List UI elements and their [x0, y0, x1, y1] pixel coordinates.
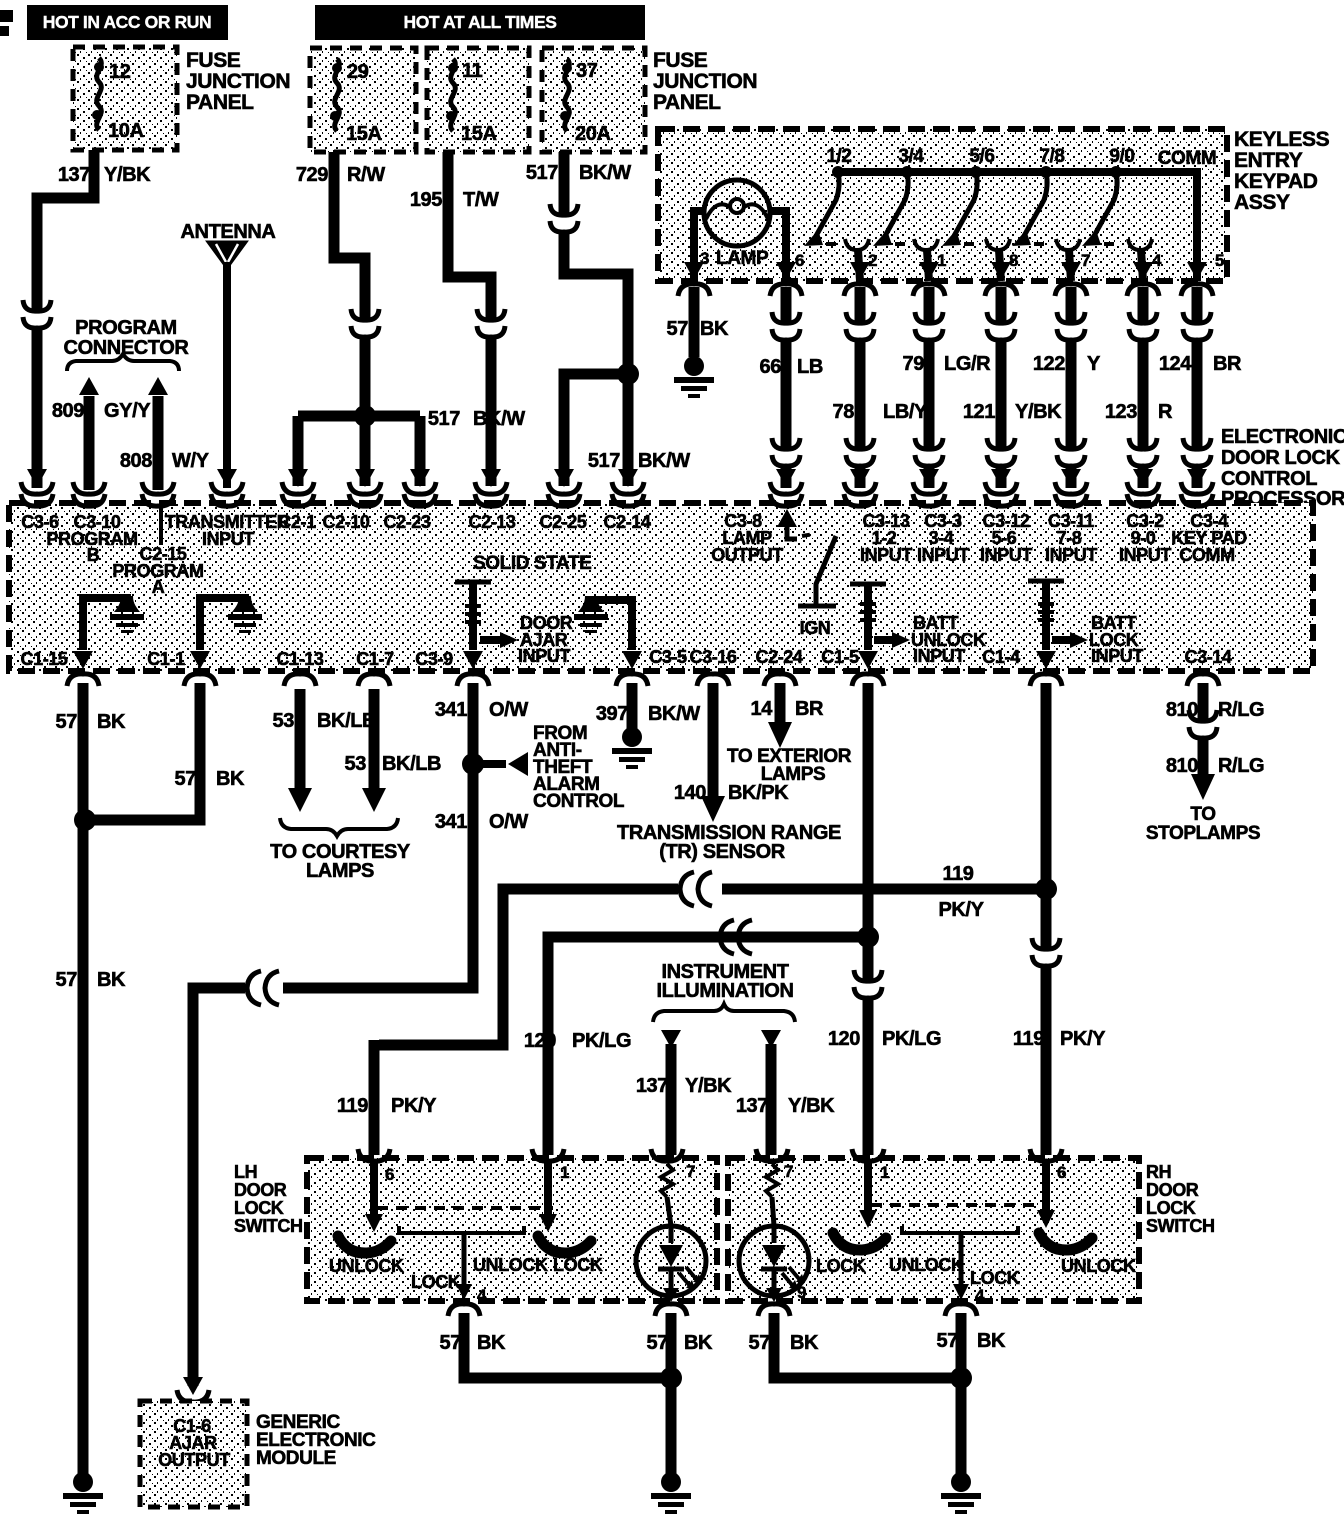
- svg-text:LAMPS: LAMPS: [306, 860, 374, 882]
- keyless entry keypad assy box: [658, 129, 1227, 281]
- svg-text:53: 53: [345, 753, 367, 775]
- svg-text:808: 808: [120, 450, 152, 472]
- junction node wire 729: [282, 405, 436, 494]
- svg-text:C3-9: C3-9: [415, 649, 453, 669]
- svg-text:PK/Y: PK/Y: [938, 899, 984, 921]
- keypad switch common bus wire: [838, 148, 1216, 281]
- LH switch exit cups: [448, 1304, 687, 1316]
- wire 78 LB/Y keypad pin2 to C3-13: [833, 287, 928, 494]
- svg-text:B: B: [87, 545, 100, 565]
- svg-text:PANEL: PANEL: [653, 91, 721, 114]
- svg-text:517: 517: [428, 408, 460, 430]
- LH mechanical link dashed: [377, 1206, 553, 1210]
- ground RH switches: [941, 1472, 981, 1514]
- fuse 29 15A box: [310, 48, 416, 152]
- label to exterior lamps: [727, 746, 852, 785]
- svg-text:LAMP: LAMP: [716, 248, 769, 269]
- program connector: [64, 317, 190, 371]
- svg-text:O/W: O/W: [489, 699, 528, 721]
- svg-text:15A: 15A: [461, 123, 497, 145]
- wire 53 BK/LB from C1-13 to courtesy lamps: [273, 689, 377, 812]
- svg-text:SWITCH: SWITCH: [234, 1216, 303, 1236]
- svg-text:809: 809: [52, 400, 84, 422]
- wire 140 BK/PK from C3-16 to TR sensor: [674, 683, 789, 822]
- internal ground circuit C1-15: [73, 596, 144, 669]
- svg-text:UNLOCK: UNLOCK: [473, 1255, 548, 1275]
- svg-text:4: 4: [975, 1286, 985, 1305]
- svg-text:R/LG: R/LG: [1218, 699, 1264, 721]
- RH switch common contact pin 4: [889, 1226, 1020, 1305]
- internal IGN switch for lamp output: [777, 509, 836, 638]
- label to courtesy lamps with brace: [270, 818, 411, 882]
- label to stoplamps: [1146, 804, 1260, 844]
- svg-text:9/0: 9/0: [1109, 146, 1134, 167]
- svg-text:UNLOCK: UNLOCK: [329, 1256, 404, 1276]
- svg-text:W/Y: W/Y: [172, 450, 210, 472]
- svg-text:BK: BK: [790, 1332, 819, 1354]
- svg-text:810: 810: [1166, 699, 1198, 721]
- svg-text:BK: BK: [700, 318, 729, 340]
- svg-text:LG/R: LG/R: [944, 353, 991, 375]
- svg-text:119: 119: [337, 1095, 368, 1117]
- svg-text:341: 341: [435, 811, 467, 833]
- svg-text:29: 29: [347, 61, 369, 83]
- label LH door lock switch: [234, 1162, 303, 1236]
- svg-text:STOPLAMPS: STOPLAMPS: [1146, 823, 1260, 844]
- wire 57 BK from C1-15 to ground: [56, 683, 126, 1474]
- svg-text:57: 57: [937, 1330, 959, 1352]
- LH indicator LED pin 7: [636, 1164, 706, 1302]
- LH unlock switch pin 6: [329, 1162, 404, 1276]
- ground keypad: [674, 356, 714, 398]
- svg-text:INPUT: INPUT: [980, 545, 1032, 565]
- svg-text:PK/Y: PK/Y: [391, 1095, 437, 1117]
- svg-text:INPUT: INPUT: [1045, 545, 1097, 565]
- RH lock switch pin 1: [816, 1162, 886, 1276]
- svg-text:(TR) SENSOR: (TR) SENSOR: [659, 841, 786, 863]
- svg-text:57: 57: [647, 1332, 669, 1354]
- wire 119 PK/Y to LH switch pin 6: [337, 1040, 437, 1155]
- svg-text:LOCK: LOCK: [553, 1255, 603, 1275]
- svg-text:INPUT: INPUT: [913, 646, 965, 666]
- svg-text:T/W: T/W: [463, 189, 499, 211]
- svg-text:PROGRAM: PROGRAM: [75, 317, 177, 339]
- fuse 12 10A box: [73, 47, 177, 150]
- label from anti-theft alarm control: [533, 723, 625, 812]
- svg-text:LOCK: LOCK: [970, 1268, 1020, 1288]
- svg-text:KEYLESS: KEYLESS: [1234, 128, 1330, 151]
- svg-text:INPUT: INPUT: [917, 545, 969, 565]
- LH lock switch pin 1: [473, 1162, 603, 1275]
- keypad switch 7/8: [1012, 146, 1090, 281]
- keypad switch 1/2: [804, 146, 877, 281]
- pin C3-8 lamp output: [711, 511, 783, 565]
- ground bottom left: [63, 1472, 103, 1514]
- lamp (keypad illumination) pin 3 / pin 6: [694, 180, 804, 281]
- svg-text:PANEL: PANEL: [186, 91, 254, 114]
- svg-text:HOT AT ALL TIMES: HOT AT ALL TIMES: [403, 12, 556, 32]
- svg-text:OUTPUT: OUTPUT: [158, 1450, 230, 1470]
- svg-text:BK/PK: BK/PK: [728, 782, 789, 804]
- svg-text:IGN: IGN: [800, 618, 831, 638]
- svg-text:57: 57: [667, 318, 689, 340]
- svg-text:TO: TO: [1190, 804, 1215, 825]
- svg-text:Y/BK: Y/BK: [1015, 401, 1062, 423]
- svg-text:4: 4: [477, 1286, 487, 1305]
- label transmission range sensor: [617, 822, 841, 863]
- pin C3-3 3-4 input: [917, 511, 969, 565]
- RH door lock switch box: [728, 1158, 1139, 1301]
- svg-text:BR: BR: [1213, 353, 1242, 375]
- svg-text:DOOR: DOOR: [234, 1180, 287, 1200]
- wire 57 BK RH LED: [749, 1313, 956, 1378]
- svg-text:RH: RH: [1146, 1162, 1171, 1182]
- svg-text:C3-14: C3-14: [1184, 647, 1231, 667]
- junction node 341 anti-theft tap: [462, 752, 528, 776]
- wire 120 PK/LG from C1-5: [828, 683, 941, 1050]
- svg-text:1: 1: [937, 251, 946, 270]
- pin C3-11 7-8 input: [1045, 511, 1097, 565]
- junction node wire 517: [428, 363, 690, 494]
- svg-text:1/2: 1/2: [826, 146, 851, 167]
- svg-text:57: 57: [56, 969, 78, 991]
- svg-text:R/LG: R/LG: [1218, 755, 1264, 777]
- svg-text:FUSE: FUSE: [186, 49, 241, 72]
- svg-text:R/W: R/W: [347, 164, 385, 186]
- svg-text:124: 124: [1159, 353, 1192, 375]
- scan artifact top-left: [0, 10, 13, 36]
- svg-text:810: 810: [1166, 755, 1198, 777]
- svg-text:INPUT: INPUT: [1119, 545, 1171, 565]
- wire 57 BK LH LED to ground: [647, 1313, 713, 1474]
- svg-text:ENTRY: ENTRY: [1234, 149, 1303, 172]
- RH mechanical link dashed: [871, 1203, 1050, 1207]
- wire 810 R/LG from C3-14: [1166, 683, 1264, 800]
- svg-text:20A: 20A: [575, 123, 611, 145]
- svg-text:78: 78: [833, 401, 855, 423]
- wire 53 BK/LB from C1-7 to courtesy lamps: [345, 689, 442, 812]
- label door ajar input: [518, 613, 573, 666]
- svg-text:INPUT: INPUT: [202, 529, 254, 549]
- svg-text:C3-16: C3-16: [689, 647, 736, 667]
- svg-text:C2-13: C2-13: [468, 512, 515, 532]
- svg-text:BK: BK: [97, 711, 126, 733]
- svg-text:C1-5: C1-5: [821, 647, 859, 667]
- svg-text:UNLOCK: UNLOCK: [889, 1255, 964, 1275]
- svg-text:341: 341: [435, 699, 467, 721]
- electronic door lock control processor box: [9, 503, 1313, 671]
- svg-text:57: 57: [175, 768, 197, 790]
- internal ground circuit C3-5: [574, 596, 642, 669]
- wire 729 R/W from fuse 29: [296, 152, 385, 416]
- svg-text:ELECTRONIC: ELECTRONIC: [1221, 426, 1344, 448]
- label solid state: [473, 553, 591, 574]
- svg-text:517: 517: [526, 162, 558, 184]
- inline connector 120 PK/LG vertical: [854, 970, 882, 998]
- wire 57 BK RH switch pin 4 to ground: [937, 1313, 1006, 1474]
- pin C2-25: [539, 512, 586, 532]
- wire 809 GY/Y: [52, 377, 151, 494]
- svg-text:7: 7: [686, 1162, 695, 1181]
- svg-text:CONTROL: CONTROL: [533, 791, 625, 812]
- svg-text:5/6: 5/6: [969, 146, 994, 167]
- svg-text:PK/Y: PK/Y: [1060, 1028, 1106, 1050]
- svg-text:57: 57: [440, 1332, 462, 1354]
- svg-text:INPUT: INPUT: [518, 646, 570, 666]
- svg-text:LH: LH: [234, 1162, 257, 1182]
- svg-text:BK: BK: [684, 1332, 713, 1354]
- svg-text:CONTROL: CONTROL: [1221, 468, 1317, 490]
- svg-text:BK/LB: BK/LB: [317, 710, 376, 732]
- wire 137 Y/BK instrument illumination to LH switch: [636, 1030, 732, 1155]
- keypad switch 3/4: [873, 146, 946, 281]
- svg-text:119: 119: [942, 863, 973, 885]
- internal ground circuit C1-1: [190, 596, 262, 669]
- svg-text:A: A: [152, 577, 165, 597]
- svg-text:BK: BK: [477, 1332, 506, 1354]
- junction node 57 BK: [74, 809, 96, 831]
- svg-text:1: 1: [880, 1163, 889, 1182]
- wire 341 O/W from C3-9: [283, 683, 528, 988]
- svg-text:195: 195: [410, 189, 442, 211]
- svg-text:121: 121: [963, 401, 995, 423]
- wire 119 PK/Y horizontal branch: [379, 863, 1041, 1045]
- svg-text:C1-4: C1-4: [982, 647, 1020, 667]
- svg-text:BK/LB: BK/LB: [382, 753, 441, 775]
- LH switch entry cups: [358, 1149, 683, 1161]
- RH switch entry cups: [756, 1149, 1062, 1161]
- svg-text:C2-25: C2-25: [539, 512, 586, 532]
- pin C2-14: [603, 512, 650, 532]
- wire 137 Y/BK from fuse 12 to C3-6: [21, 150, 151, 494]
- svg-text:5: 5: [1215, 251, 1224, 270]
- svg-text:Y/BK: Y/BK: [788, 1095, 835, 1117]
- svg-text:INPUT: INPUT: [860, 545, 912, 565]
- svg-text:Y/BK: Y/BK: [104, 164, 151, 186]
- wire 123 R keypad pin4 to C3-2: [1105, 287, 1173, 494]
- wire 121 Y/BK keypad pin8 to C3-12: [963, 287, 1062, 494]
- pin C2-10: [322, 512, 369, 532]
- svg-text:4: 4: [1152, 251, 1162, 270]
- svg-text:120: 120: [828, 1028, 860, 1050]
- pin C2-13: [468, 512, 515, 532]
- svg-text:11: 11: [462, 60, 483, 82]
- svg-text:OUTPUT: OUTPUT: [711, 545, 783, 565]
- svg-text:LOCK: LOCK: [816, 1256, 866, 1276]
- svg-text:BK: BK: [977, 1330, 1006, 1352]
- label electronic door lock control processor: [1221, 426, 1344, 510]
- generic electronic module box C1-6 ajar output: [140, 1401, 247, 1507]
- label fuse junction panel left: [186, 49, 290, 114]
- svg-text:10A: 10A: [108, 120, 144, 142]
- wire 57 BK keypad lamp ground: [667, 287, 729, 357]
- fuse 11 15A box: [427, 48, 529, 152]
- svg-text:C2-14: C2-14: [603, 512, 650, 532]
- label keyless entry keypad assy: [1234, 128, 1330, 214]
- pin C3-4 keypad comm: [1171, 511, 1247, 565]
- antenna: [181, 221, 276, 494]
- svg-text:BR: BR: [795, 698, 824, 720]
- svg-text:120: 120: [524, 1030, 556, 1052]
- keypad comm pin 5: [1215, 251, 1224, 270]
- svg-text:9: 9: [797, 1283, 806, 1302]
- svg-text:7: 7: [784, 1162, 793, 1181]
- label RH door lock switch: [1146, 1162, 1215, 1236]
- svg-text:137: 137: [736, 1095, 768, 1117]
- wire 14 BR from C2-24 to exterior lamps: [751, 683, 824, 748]
- svg-text:57: 57: [749, 1332, 771, 1354]
- svg-text:INPUT: INPUT: [1091, 646, 1143, 666]
- svg-text:6: 6: [795, 251, 804, 270]
- svg-text:37: 37: [576, 60, 598, 82]
- wire 120 PK/LG to RH switch pin 1: [863, 996, 874, 1155]
- RH switch exit cups: [758, 1304, 977, 1316]
- svg-text:137: 137: [636, 1075, 668, 1097]
- LH door lock switch box: [307, 1158, 717, 1301]
- wire 124 BR keypad pin5 to C3-4: [1159, 287, 1242, 494]
- svg-text:COMM: COMM: [1179, 545, 1234, 565]
- internal batt lock input circuit C1-4: [1028, 581, 1088, 669]
- pin transmitter input: [161, 506, 290, 549]
- svg-text:14: 14: [751, 698, 774, 720]
- svg-text:COMM: COMM: [1158, 148, 1217, 169]
- svg-text:HOT IN ACC OR RUN: HOT IN ACC OR RUN: [43, 12, 212, 32]
- svg-text:SOLID STATE: SOLID STATE: [473, 553, 591, 574]
- svg-text:7/8: 7/8: [1039, 146, 1064, 167]
- svg-text:LB/Y: LB/Y: [883, 401, 928, 423]
- svg-text:12: 12: [109, 61, 131, 83]
- svg-text:JUNCTION: JUNCTION: [186, 70, 290, 93]
- processor bottom exit cups: [67, 674, 1219, 686]
- svg-text:LOCK: LOCK: [411, 1272, 461, 1292]
- RH indicator LED pin 7: [739, 1160, 809, 1302]
- svg-text:LAMPS: LAMPS: [761, 764, 826, 785]
- pin C3-10 PROGRAM B: [46, 512, 137, 565]
- svg-text:3/4: 3/4: [898, 146, 924, 167]
- wire 66 LB keypad pin6 to C3-8: [760, 287, 823, 494]
- svg-text:LOCK: LOCK: [234, 1198, 284, 1218]
- svg-text:57: 57: [56, 711, 78, 733]
- svg-text:SWITCH: SWITCH: [1146, 1216, 1215, 1236]
- svg-text:ILLUMINATION: ILLUMINATION: [656, 980, 793, 1002]
- svg-text:BK: BK: [97, 969, 126, 991]
- keypad pin exit cups: [678, 262, 1213, 296]
- wire 397 BK/W from C3-5 to ground: [596, 683, 700, 729]
- junction node 120 PK/LG: [857, 926, 879, 948]
- svg-text:PK/LG: PK/LG: [572, 1030, 631, 1052]
- wire 120 PK/LG branch to LH switch pin 1: [524, 920, 863, 1155]
- svg-text:GY/Y: GY/Y: [104, 400, 151, 422]
- svg-text:BK/W: BK/W: [473, 408, 525, 430]
- svg-text:C1-7: C1-7: [356, 649, 394, 669]
- svg-text:Y/BK: Y/BK: [685, 1075, 732, 1097]
- svg-text:C1-15: C1-15: [20, 649, 67, 669]
- svg-text:ANTENNA: ANTENNA: [181, 221, 276, 243]
- svg-text:FUSE: FUSE: [653, 49, 708, 72]
- power label HOT AT ALL TIMES: [315, 5, 645, 40]
- svg-text:PK/LG: PK/LG: [882, 1028, 941, 1050]
- junction node RH 57 BK: [950, 1367, 972, 1389]
- pin C3-2 9-0 input: [1119, 511, 1171, 565]
- internal door ajar input circuit C3-9: [455, 582, 518, 669]
- pin C3-12 5-6 input: [980, 511, 1032, 565]
- svg-text:8: 8: [1009, 251, 1018, 270]
- svg-text:KEYPAD: KEYPAD: [1234, 170, 1318, 193]
- svg-text:15A: 15A: [346, 123, 382, 145]
- svg-text:C2-23: C2-23: [383, 512, 430, 532]
- fuse 37 20A box: [542, 48, 645, 152]
- svg-text:Y: Y: [1087, 353, 1101, 375]
- svg-text:DOOR: DOOR: [1146, 1180, 1199, 1200]
- keypad switch 9/0: [1082, 146, 1162, 281]
- svg-text:BK/W: BK/W: [638, 450, 690, 472]
- svg-text:C2-10: C2-10: [322, 512, 369, 532]
- svg-text:2: 2: [868, 251, 877, 270]
- pin C2-15 PROGRAM A: [112, 544, 203, 597]
- svg-text:7: 7: [1081, 251, 1090, 270]
- ground LH switches: [651, 1472, 691, 1514]
- svg-text:BK: BK: [216, 768, 245, 790]
- svg-text:C2-1: C2-1: [278, 512, 316, 532]
- svg-text:122: 122: [1033, 353, 1065, 375]
- svg-text:JUNCTION: JUNCTION: [653, 70, 757, 93]
- pin C3-13 1-2 input: [860, 511, 912, 565]
- wire 119 PK/Y from C1-4: [1013, 683, 1106, 1050]
- ground 397: [612, 727, 652, 769]
- LH pin numbers: [385, 1162, 695, 1184]
- svg-text:53: 53: [273, 710, 295, 732]
- label batt lock input: [1089, 613, 1143, 666]
- svg-text:1: 1: [560, 1163, 569, 1182]
- label fuse junction panel right: [653, 49, 757, 114]
- svg-text:C1-13: C1-13: [276, 649, 323, 669]
- label instrument illumination with brace: [653, 961, 795, 1022]
- label generic electronic module: [256, 1412, 376, 1469]
- svg-text:UNLOCK: UNLOCK: [1061, 1256, 1136, 1276]
- pin C3-6: [21, 512, 59, 532]
- RH pin numbers: [784, 1162, 1066, 1182]
- LH switch common contact pin 4: [399, 1226, 524, 1305]
- wire 122 Y keypad pin7 to C3-11: [1033, 287, 1101, 494]
- svg-text:R: R: [1158, 401, 1173, 423]
- processor top entry cups: [21, 494, 1213, 506]
- label batt unlock input: [911, 613, 986, 666]
- svg-text:6: 6: [1057, 1163, 1066, 1182]
- svg-text:119: 119: [1013, 1028, 1044, 1050]
- pin C2-23: [383, 512, 430, 532]
- wire 195 T/W from fuse 11: [410, 152, 507, 494]
- internal batt unlock input circuit C1-5: [850, 584, 910, 669]
- svg-text:729: 729: [296, 164, 328, 186]
- junction node 119 PK/Y: [1035, 878, 1057, 900]
- wire 57 BK LH switch pin 4: [440, 1313, 666, 1378]
- wire 808 W/Y: [120, 377, 210, 494]
- svg-text:C1-1: C1-1: [147, 649, 185, 669]
- wire 517 BK/W from fuse 37: [526, 152, 631, 374]
- svg-text:MODULE: MODULE: [256, 1448, 336, 1469]
- svg-text:BK/W: BK/W: [648, 703, 700, 725]
- svg-text:LOCK: LOCK: [1146, 1198, 1196, 1218]
- RH unlock switch pin 6: [1037, 1162, 1136, 1276]
- svg-text:79: 79: [903, 353, 925, 375]
- bottom pin labels: [20, 649, 67, 669]
- wire 119 PK/Y to RH switch pin 6: [1041, 964, 1052, 1155]
- svg-text:BK/W: BK/W: [579, 162, 631, 184]
- svg-text:C3-5: C3-5: [649, 647, 687, 667]
- svg-text:123: 123: [1105, 401, 1137, 423]
- wire 79 LG/R keypad pin1 to C3-3: [903, 287, 992, 494]
- svg-text:DOOR LOCK: DOOR LOCK: [1221, 447, 1341, 469]
